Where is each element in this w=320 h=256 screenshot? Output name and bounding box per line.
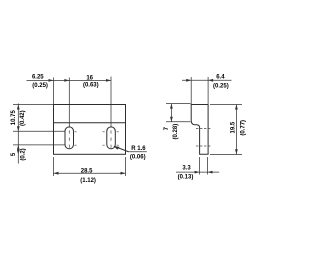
svg-text:(0.42): (0.42)	[20, 110, 26, 126]
svg-text:(0.06): (0.06)	[130, 154, 146, 160]
svg-text:(0.13): (0.13)	[178, 174, 194, 180]
svg-text:(0.28): (0.28)	[173, 124, 179, 140]
svg-text:6.4: 6.4	[216, 75, 225, 81]
svg-text:(0.25): (0.25)	[213, 84, 229, 90]
svg-text:19.5: 19.5	[230, 121, 236, 133]
svg-text:28.5: 28.5	[81, 168, 93, 174]
svg-text:R 1.6: R 1.6	[131, 146, 146, 152]
svg-text:(1.12): (1.12)	[80, 178, 96, 184]
svg-text:(0.25): (0.25)	[32, 83, 48, 89]
svg-text:(0.63): (0.63)	[83, 83, 99, 89]
svg-text:6.25: 6.25	[32, 74, 44, 80]
svg-text:(0.2): (0.2)	[20, 148, 26, 160]
svg-text:16: 16	[86, 75, 93, 81]
svg-text:3.3: 3.3	[182, 166, 191, 172]
svg-text:10.75: 10.75	[11, 110, 17, 126]
svg-text:(0.77): (0.77)	[241, 120, 247, 136]
